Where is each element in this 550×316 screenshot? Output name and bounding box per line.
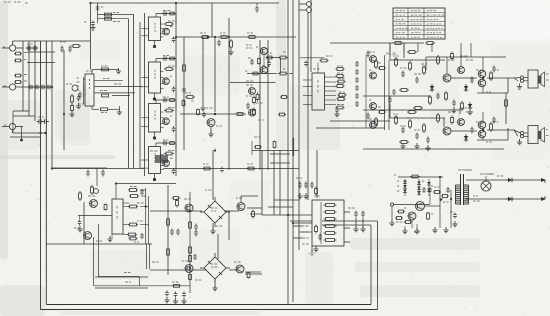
svg-text:PN- 05: PN- 05 xyxy=(386,52,396,56)
svg-text:TR POWER: TR POWER xyxy=(458,168,472,172)
svg-text:AC POWER: AC POWER xyxy=(480,172,494,176)
